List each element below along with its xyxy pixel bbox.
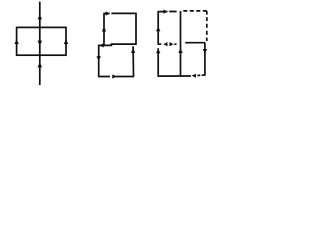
- arrow right on right-figure top edge: [164, 10, 168, 14]
- arrow up on middle top-square left edge: [102, 27, 106, 32]
- arrow right on middle bottom-square bottom edge: [112, 74, 116, 78]
- right figure: left edge: [157, 12, 159, 77]
- arrow up on right-figure left edge upper: [156, 27, 160, 32]
- arrow right on cancelled middle horizontal: [169, 42, 173, 46]
- middle figure: bottom square bottom edge: [98, 76, 134, 78]
- arrow up on wire W1 above rectangle: [38, 15, 43, 20]
- right figure: middle horizontal right solid section: [185, 42, 205, 44]
- right figure: cancelled middle horizontal left section dashes: [158, 43, 177, 45]
- middle figure: bottom square left edge: [98, 45, 100, 77]
- arrow left on cancelled middle horizontal: [163, 42, 167, 46]
- right figure: middle vertical edge: [180, 11, 182, 76]
- wire W1 vertical through left rectangle: [39, 2, 41, 85]
- arrow up on middle bottom-square right edge: [131, 48, 135, 53]
- arrow up on right edge of rectangle: [64, 39, 68, 44]
- arrow down on wire W1 inside rectangle: [38, 41, 43, 46]
- arrow right on middle top-square top edge: [106, 11, 110, 15]
- arrow down on middle bottom-square left edge: [97, 56, 101, 61]
- right figure: bottom edge dashes to right corner: [197, 74, 205, 76]
- loop rectangle left figure: [17, 27, 66, 55]
- middle figure: top square left edge: [103, 14, 105, 46]
- middle figure: top square top edge: [103, 12, 136, 14]
- arrow up on left edge of rectangle: [14, 39, 18, 44]
- right figure: right dashed vertical: [206, 11, 208, 41]
- arrow up on right-figure left edge lower: [156, 49, 160, 54]
- middle figure: top square right edge: [135, 13, 137, 45]
- arrow up on wire W1 below rectangle: [38, 62, 43, 67]
- arrow left on right-figure bottom edge: [192, 74, 196, 78]
- arrow up on right-figure middle vertical: [178, 48, 182, 53]
- middle figure: bottom square right edge: [132, 46, 134, 76]
- arrow left on middle jog edge: [99, 43, 104, 47]
- right figure: top right dashed horizontal: [183, 10, 207, 12]
- middle figure: top square bottom edge with jog step: [99, 44, 137, 45]
- right figure: bottom edge solid part: [158, 75, 191, 77]
- right figure: top edge solid part: [158, 11, 177, 13]
- right figure: right solid vertical lower: [204, 43, 206, 76]
- arrow down on right-figure right solid vertical: [203, 49, 207, 54]
